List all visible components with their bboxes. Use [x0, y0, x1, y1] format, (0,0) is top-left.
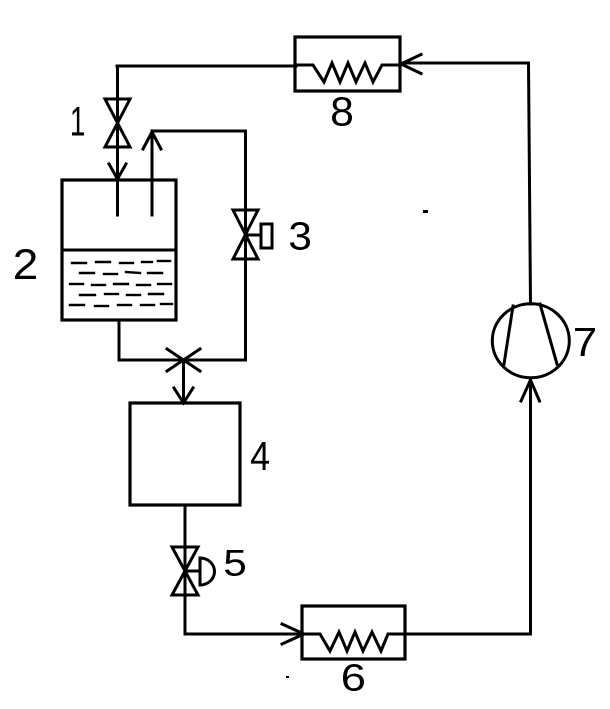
wire junction horizontal	[119, 359, 246, 362]
heat exchanger 8 box	[295, 37, 400, 91]
wire valve 1 inlet	[116, 66, 119, 147]
arrow into compressor 7	[521, 380, 540, 401]
arrow into HX8	[401, 55, 421, 74]
wire HX6 to compressor	[405, 380, 531, 634]
arrow into box 4	[174, 388, 193, 403]
vapor outlet pipe (inside tank up)	[151, 131, 154, 215]
valve 5 actuator D	[200, 558, 215, 585]
box 4	[130, 403, 240, 505]
wire junction to box 4	[182, 360, 185, 402]
label 8	[332, 97, 352, 126]
junction X mark	[167, 349, 200, 371]
speck artifact below HX6	[286, 676, 289, 678]
HX6 coil	[302, 632, 405, 651]
label 7	[575, 328, 595, 356]
label 5	[225, 550, 245, 576]
arrow into tank 2	[109, 164, 126, 179]
valve 1	[105, 99, 130, 147]
label 3	[290, 222, 310, 250]
wire tank 2 bottom outlet	[118, 320, 121, 360]
wire valve 1 to tank 2	[116, 147, 119, 215]
heat exchanger 6 box	[302, 606, 405, 659]
valve 3 actuator box	[261, 224, 272, 248]
valve 3	[233, 210, 258, 259]
speck artifact right middle	[423, 210, 428, 213]
wire top horizontal (HX8 to valve 1 drop)	[117, 65, 296, 68]
arrow up at outlet corner	[143, 132, 161, 149]
tank 2	[62, 180, 176, 320]
label 4	[251, 442, 269, 470]
wire box 4 to valve 5	[184, 505, 187, 595]
wire compressor to HX8	[400, 63, 531, 304]
liquid level line	[62, 249, 176, 252]
label 1	[72, 107, 84, 136]
label 6	[343, 664, 364, 691]
compressor 7 vane left	[504, 306, 513, 364]
valve 5 actuator stem	[185, 570, 200, 573]
wire valve 5 to HX6	[185, 595, 302, 634]
arrow into HX6	[282, 624, 304, 644]
liquid dashes	[70, 261, 172, 306]
label 2	[15, 249, 36, 279]
compressor 7 vane right	[540, 304, 557, 364]
wire tank outlet to valve 3	[152, 131, 246, 259]
valve 3 actuator stem	[246, 234, 262, 237]
compressor 7 circle	[492, 304, 569, 378]
valve 5	[172, 547, 198, 595]
wire valve 3 down	[244, 210, 247, 360]
HX8 coil	[295, 63, 400, 82]
